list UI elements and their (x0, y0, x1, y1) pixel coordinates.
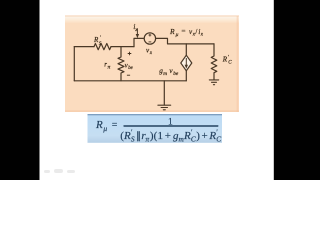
faint footer smudge (44, 169, 75, 173)
svg-text:=: = (112, 120, 118, 131)
current source arrow (inside diamond) (185, 58, 187, 66)
dependent current source g_m v_be (diamond) (181, 55, 192, 71)
i_x current arrow (136, 29, 138, 35)
formula box top border (88, 114, 223, 115)
svg-text:π: π (108, 64, 111, 70)
svg-text:C: C (216, 135, 221, 144)
i_x arrowhead (136, 34, 139, 38)
white slide background (0, 0, 320, 180)
wire: bottom rail (74, 80, 186, 82)
peach panel bottom edge shade (65, 110, 239, 112)
svg-text:/: / (195, 28, 197, 36)
label - (v_be polarity bottom) (127, 74, 130, 76)
right black pillarbox bar (274, 0, 320, 180)
left black pillarbox bar (0, 0, 40, 180)
svg-text:1: 1 (158, 130, 164, 142)
svg-text:=: = (182, 28, 186, 36)
wire: source to step-down and right rail (156, 38, 214, 44)
svg-text:+: + (165, 130, 171, 142)
plus sign inside v_x source (149, 34, 152, 37)
svg-text:R: R (169, 27, 175, 36)
svg-text:m: m (179, 135, 184, 144)
peach schematic panel (65, 16, 239, 24)
svg-text:μ: μ (176, 32, 179, 38)
ground stem (middle) (163, 81, 165, 105)
dependent source lead top (185, 44, 187, 55)
svg-text:π: π (146, 135, 150, 144)
svg-text:μ: μ (103, 124, 107, 133)
label + (v_be polarity top) (128, 52, 132, 56)
resistor r_pi (vertical zigzag) with leads (118, 47, 124, 81)
svg-text:m: m (163, 71, 167, 77)
svg-text:R: R (183, 130, 191, 142)
peach panel right edge shade (237, 16, 239, 112)
voltage source v_x (circle) (144, 33, 155, 44)
wire: left rail down (73, 47, 75, 81)
ground symbol (middle) (158, 105, 171, 110)
dependent source lead bottom (185, 71, 187, 81)
wire: step up to voltage source level (134, 38, 144, 46)
svg-text:+: + (202, 130, 208, 142)
svg-text:∥: ∥ (136, 131, 141, 142)
svg-text:R: R (208, 130, 216, 142)
minus sign inside v_x source (149, 41, 152, 43)
formula fraction bar (124, 125, 219, 126)
resistor R'S (horizontal zigzag) (94, 44, 111, 50)
resistor R'C (vertical zigzag) with leads (211, 44, 217, 80)
formula highlight box (blue) (88, 114, 223, 143)
wire: R'S to node at r_pi top and to step-up (111, 46, 134, 48)
svg-text:R: R (222, 56, 228, 64)
svg-text:S: S (131, 135, 135, 144)
svg-text:′: ′ (100, 36, 101, 41)
svg-text:C: C (191, 135, 196, 144)
svg-text:be: be (173, 71, 179, 77)
svg-text:): ) (196, 130, 200, 142)
ground symbol under R'C (209, 80, 218, 85)
wire: top-left from corner to resistor R'S (74, 46, 94, 48)
svg-text:R: R (123, 130, 131, 142)
svg-text:R: R (95, 119, 103, 131)
peach panel top edge line (65, 15, 239, 18)
